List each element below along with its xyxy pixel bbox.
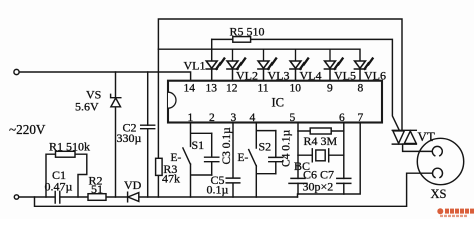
capacitor C2 <box>147 72 149 197</box>
svg-text:E-: E- <box>238 152 249 164</box>
LED VL2 <box>232 49 234 61</box>
capacitor C7 <box>337 178 351 183</box>
svg-text:R4 3M: R4 3M <box>304 134 338 148</box>
LED VL6 <box>355 61 366 68</box>
svg-text:IC: IC <box>272 96 285 110</box>
IC U1 <box>168 81 382 123</box>
svg-text:C3 0.1µ: C3 0.1µ <box>221 127 233 165</box>
capacitor C1 <box>55 192 60 204</box>
terminal upper AC input <box>14 69 19 74</box>
wire: VL1 anode drop from R5 line <box>211 39 213 61</box>
svg-text:VD: VD <box>124 178 142 192</box>
svg-text:13: 13 <box>206 83 218 95</box>
wire: bottom neutral line <box>19 196 298 198</box>
watermark logo bottom right <box>437 208 474 217</box>
svg-text:51: 51 <box>91 182 103 196</box>
capacitor C4 <box>269 131 283 174</box>
resistor R2 <box>88 194 106 201</box>
wire: crystal ground rail with pin 7 drop <box>298 123 361 198</box>
wire: lower return line to socket <box>35 173 433 206</box>
svg-text:10: 10 <box>290 83 302 95</box>
svg-text:R1 510k: R1 510k <box>49 140 90 154</box>
resistor R5 <box>233 37 251 43</box>
svg-text:XS: XS <box>431 187 447 201</box>
svg-text:4: 4 <box>250 112 256 124</box>
svg-text:8: 8 <box>358 83 364 95</box>
resistor R4 <box>298 130 344 132</box>
svg-text:5: 5 <box>290 112 296 124</box>
svg-text:14: 14 <box>184 83 196 95</box>
wire: R5 supply line with drop to triac gate <box>212 39 400 130</box>
capacitor C6 <box>289 178 307 183</box>
svg-text:S2: S2 <box>259 140 272 154</box>
svg-text:0.1µ: 0.1µ <box>207 183 229 197</box>
terminal lower AC input <box>14 195 18 199</box>
wire: pin 5 column <box>297 123 299 195</box>
wire: LED anode bus <box>158 49 360 61</box>
svg-text:R5 510: R5 510 <box>230 25 265 39</box>
resistor R3 <box>156 158 163 175</box>
socket XS <box>417 138 463 184</box>
wire: outer loop (left riser, top bus, right drop to triac) <box>158 19 402 197</box>
svg-text:0.47µ: 0.47µ <box>45 180 73 194</box>
svg-text:330µ: 330µ <box>117 131 142 145</box>
diode VD <box>127 192 129 202</box>
svg-text:VT: VT <box>418 129 435 144</box>
svg-text:11: 11 <box>258 83 269 95</box>
crystal BC <box>298 149 344 162</box>
svg-text:E-: E- <box>171 152 182 164</box>
LED VL5 <box>329 49 331 61</box>
LED VL4 <box>295 49 297 61</box>
capacitor C5 with pin 3 wire <box>226 123 240 198</box>
svg-text:5.6V: 5.6V <box>75 100 99 114</box>
svg-text:2: 2 <box>209 112 215 124</box>
resistor R1 <box>46 154 87 197</box>
svg-text:S1: S1 <box>192 138 205 152</box>
svg-text:C4 0.1µ: C4 0.1µ <box>281 129 293 167</box>
LED VL3 <box>263 49 265 61</box>
svg-text:9: 9 <box>327 83 333 95</box>
wire: top AC line to pin 14 <box>19 72 190 81</box>
switch S2 with pin 4 stub and jog wire <box>249 123 276 198</box>
svg-text:VL1: VL1 <box>184 59 206 73</box>
switch S1 with pin 1 stub and jog wire <box>183 123 212 198</box>
LED VL1 <box>206 61 217 68</box>
capacitor C3 <box>205 133 219 175</box>
svg-text:~220V: ~220V <box>9 122 46 137</box>
wire: pin 6 column <box>343 123 345 195</box>
svg-text:47k: 47k <box>162 172 180 186</box>
zener diode VS <box>115 72 117 197</box>
svg-text:30p×2: 30p×2 <box>303 180 334 194</box>
svg-text:12: 12 <box>226 83 238 95</box>
triac VT <box>392 130 416 144</box>
